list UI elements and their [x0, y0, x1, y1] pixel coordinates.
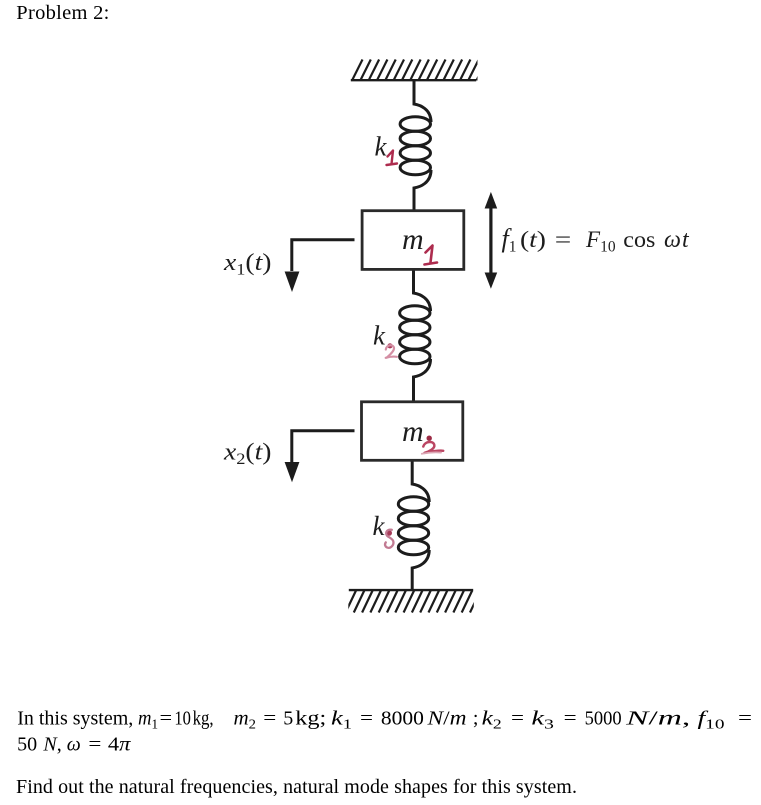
svg-text:kg;: kg; — [295, 708, 326, 730]
svg-text:x2(t): x2(t) — [223, 439, 272, 468]
svg-text:m2: m2 — [234, 708, 257, 733]
svg-text:f1: f1 — [502, 224, 517, 256]
svg-text:f10: f10 — [698, 708, 725, 733]
svg-text:Find out the natural frequenci: Find out the natural frequencies, natura… — [16, 776, 577, 798]
svg-text:=: = — [555, 227, 572, 252]
svg-text:=: = — [88, 733, 101, 755]
svg-text:=: = — [360, 708, 373, 730]
svg-text:50: 50 — [17, 733, 37, 755]
svg-text:m: m — [402, 415, 424, 448]
svg-text:cos: cos — [623, 227, 655, 252]
svg-text:(t): (t) — [520, 227, 546, 252]
svg-text:ω: ω — [67, 733, 81, 755]
svg-text:;: ; — [473, 708, 479, 730]
svg-text:10: 10 — [174, 708, 191, 730]
svg-text:k: k — [373, 321, 386, 351]
svg-text:k3: k3 — [531, 708, 554, 733]
svg-text:=: = — [738, 708, 752, 730]
svg-text:5: 5 — [283, 708, 293, 730]
svg-text:m: m — [402, 223, 424, 256]
svg-text:Problem 2:: Problem 2: — [16, 2, 109, 24]
svg-text:=: = — [160, 708, 173, 730]
svg-text:N,: N, — [42, 733, 61, 755]
svg-text:F10: F10 — [585, 227, 616, 256]
svg-text:=: = — [511, 708, 524, 730]
svg-text:k: k — [373, 511, 386, 541]
svg-text:4π: 4π — [108, 733, 132, 755]
svg-text:8000: 8000 — [381, 708, 424, 730]
svg-text:In this system,: In this system, — [17, 708, 133, 730]
svg-text:x1(t): x1(t) — [223, 250, 272, 279]
svg-text:k: k — [375, 132, 388, 162]
svg-text:k2: k2 — [482, 708, 502, 733]
svg-text:k1: k1 — [331, 708, 352, 733]
svg-text:m1: m1 — [138, 708, 158, 733]
svg-text:kg,: kg, — [193, 708, 214, 730]
svg-text:5000: 5000 — [585, 708, 622, 730]
svg-text:N/m: N/m — [426, 708, 466, 730]
svg-text:N/m,: N/m, — [625, 708, 691, 730]
svg-text:=: = — [263, 708, 276, 730]
svg-text:ωt: ωt — [664, 227, 690, 253]
svg-text:=: = — [564, 708, 577, 730]
